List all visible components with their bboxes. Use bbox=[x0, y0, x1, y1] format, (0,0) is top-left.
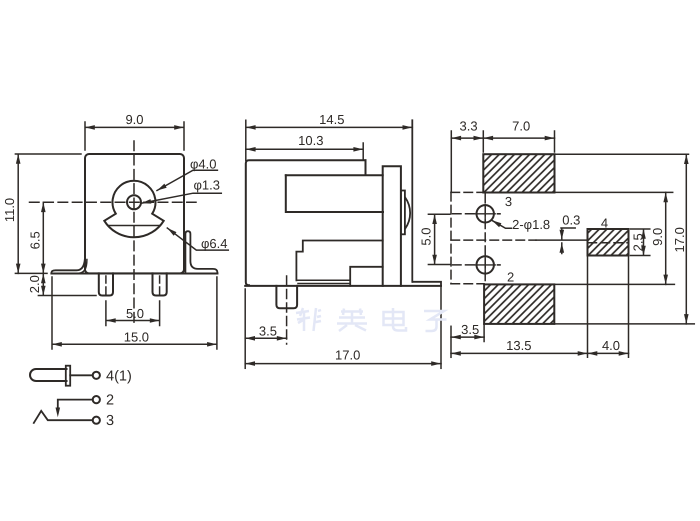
left mounting flange bent tab bbox=[51, 257, 85, 274]
wire pin 3 with spring zigzag bbox=[34, 411, 93, 423]
leader phi1.3 bbox=[141, 193, 221, 203]
side pin bbox=[276, 286, 297, 308]
plug barrel bbox=[30, 369, 67, 381]
top edge line extending right bbox=[555, 153, 689, 155]
dimension 10.3 bbox=[246, 143, 363, 160]
base rear tab bbox=[413, 282, 441, 286]
side body outline bbox=[246, 160, 366, 285]
dashed outline bottom segment bbox=[451, 283, 484, 285]
horizontal center dashed line bbox=[30, 201, 197, 203]
svg-text:2: 2 bbox=[507, 270, 514, 285]
svg-text:6.5: 6.5 bbox=[28, 231, 43, 249]
svg-text:10.3: 10.3 bbox=[298, 133, 323, 148]
svg-text:2: 2 bbox=[106, 393, 114, 409]
dimension 17.0 side bbox=[245, 363, 441, 365]
dimension 3.5 bottom bbox=[451, 336, 484, 338]
dashed body outline left edge bbox=[450, 192, 452, 283]
svg-text:0.3: 0.3 bbox=[562, 213, 580, 228]
svg-text:9.0: 9.0 bbox=[650, 228, 665, 246]
svg-text:φ4.0: φ4.0 bbox=[190, 157, 217, 172]
rear contact tab bbox=[401, 191, 405, 235]
dimension 9.0 bbox=[85, 122, 184, 150]
left terminal pin bbox=[99, 273, 113, 295]
dimension 17.0 right bbox=[685, 154, 687, 324]
svg-text:2.0: 2.0 bbox=[27, 275, 42, 293]
barrel inner rectangle bbox=[286, 175, 383, 212]
svg-text:4(1): 4(1) bbox=[106, 368, 132, 384]
dimension 7.0 bbox=[483, 137, 554, 139]
pad3 bottom edge extension right bbox=[555, 191, 673, 193]
svg-text:13.5: 13.5 bbox=[506, 338, 531, 353]
terminal circle 4 bbox=[93, 372, 100, 379]
svg-text:3.5: 3.5 bbox=[461, 322, 479, 337]
terminal circle 2 bbox=[93, 396, 100, 403]
plug tip bar bbox=[66, 366, 70, 386]
svg-text:3.3: 3.3 bbox=[460, 119, 478, 134]
svg-text:7.0: 7.0 bbox=[512, 119, 530, 134]
bottom contact strip bbox=[296, 280, 350, 283]
3.5 left extension bbox=[450, 326, 452, 357]
svg-text:4.0: 4.0 bbox=[602, 338, 620, 353]
vertical center dashed line bbox=[133, 141, 135, 323]
watermark 科美电子 bbox=[296, 308, 447, 331]
jack body front outline bbox=[85, 154, 184, 273]
dimension 15.0 bbox=[52, 277, 217, 349]
svg-text:φ6.4: φ6.4 bbox=[201, 236, 228, 251]
leader 2-phi1.8 bbox=[492, 220, 512, 228]
svg-text:9.0: 9.0 bbox=[125, 112, 143, 127]
pad2 top edge extension right bbox=[554, 283, 674, 285]
dimension 6.5 bbox=[42, 202, 44, 273]
svg-text:17.0: 17.0 bbox=[335, 348, 360, 363]
svg-text:2.5: 2.5 bbox=[631, 233, 646, 251]
left pin dashed centerline bbox=[105, 276, 107, 298]
svg-text:15.0: 15.0 bbox=[124, 329, 149, 344]
dimension 3.3 bbox=[451, 137, 483, 139]
right pin dashed centerline bbox=[159, 276, 161, 298]
base bottom line bbox=[245, 285, 441, 287]
barrel circle phi4.0 bbox=[104, 181, 163, 238]
side pin dashed centerline bbox=[286, 276, 288, 344]
svg-text:3: 3 bbox=[505, 194, 512, 209]
hole 2 bbox=[477, 256, 494, 273]
top step to barrel bbox=[286, 160, 383, 175]
dimension 13.5 bbox=[451, 352, 588, 354]
pad2 bottom edge extension right bbox=[554, 323, 694, 325]
right terminal pin bbox=[153, 273, 167, 295]
svg-text:4: 4 bbox=[601, 215, 608, 230]
svg-text:5.0: 5.0 bbox=[418, 228, 433, 246]
chord line of phi6.4 contact bbox=[108, 225, 160, 227]
dimension 0.3 bbox=[561, 228, 575, 254]
svg-text:φ1.3: φ1.3 bbox=[194, 177, 221, 192]
leader phi4.0 bbox=[157, 170, 217, 190]
middle dashed centerline bbox=[451, 239, 536, 241]
svg-text:11.0: 11.0 bbox=[2, 198, 17, 222]
pad 2 hatched rectangle bbox=[484, 284, 554, 324]
svg-text:17.0: 17.0 bbox=[672, 227, 687, 252]
hole2 centerline dashes to left bbox=[453, 264, 475, 266]
pad 4 hatched rectangle bbox=[588, 229, 629, 256]
dimension 4.0 bbox=[588, 352, 629, 354]
dashed outline top segment bbox=[451, 191, 483, 193]
center pin hole phi1.3 bbox=[127, 195, 141, 209]
bottom edge line across flanges bbox=[51, 273, 217, 275]
dimension 14.5 bbox=[246, 120, 412, 160]
dimension 3.5 side bbox=[245, 337, 286, 339]
bottom right box (terminal 2 base) bbox=[350, 267, 383, 286]
bottom extension line to left bbox=[15, 272, 47, 274]
wire pin 2 with switch arrow bbox=[58, 400, 93, 409]
terminal circle 3 bbox=[93, 417, 100, 424]
dimension 5.0 front bbox=[106, 301, 160, 326]
dimension 3.3 / 7.0 extension lines bbox=[451, 131, 554, 192]
rear spring leaf bbox=[405, 198, 410, 229]
pad4 side extension lines down bbox=[588, 256, 629, 358]
outer right edge / 14.5 extension bbox=[411, 120, 413, 281]
internal contact step bbox=[296, 241, 382, 281]
dimension 11.0 bbox=[15, 154, 81, 273]
right extension below base bbox=[440, 286, 442, 368]
hole centerline vertical dashed bbox=[484, 194, 486, 283]
pad4 dashed centerline bbox=[588, 242, 629, 244]
hole3 centerline dashes to left bbox=[453, 213, 475, 215]
wire pin 4 bbox=[70, 374, 93, 376]
leader phi6.4 bbox=[167, 228, 228, 250]
svg-text:2-φ1.8: 2-φ1.8 bbox=[512, 217, 550, 232]
dimension 5.0 side bbox=[428, 214, 449, 264]
dimension 2.0 bbox=[38, 273, 96, 295]
pin4 tail solid line bbox=[536, 239, 588, 241]
svg-text:14.5: 14.5 bbox=[319, 112, 344, 127]
rear plate bbox=[383, 166, 401, 286]
svg-text:3.5: 3.5 bbox=[259, 323, 277, 338]
hole 3 bbox=[477, 205, 494, 222]
svg-text:3: 3 bbox=[106, 413, 114, 429]
svg-text:5.0: 5.0 bbox=[126, 306, 144, 321]
right mounting flange bent tab bbox=[185, 231, 217, 273]
left extension below body bbox=[244, 289, 246, 368]
pad 3 hatched rectangle bbox=[483, 154, 554, 192]
dimension 2.5 bbox=[631, 229, 650, 256]
dimension 9.0 right bbox=[665, 192, 667, 284]
pad2 left edge extension down bbox=[483, 324, 485, 342]
